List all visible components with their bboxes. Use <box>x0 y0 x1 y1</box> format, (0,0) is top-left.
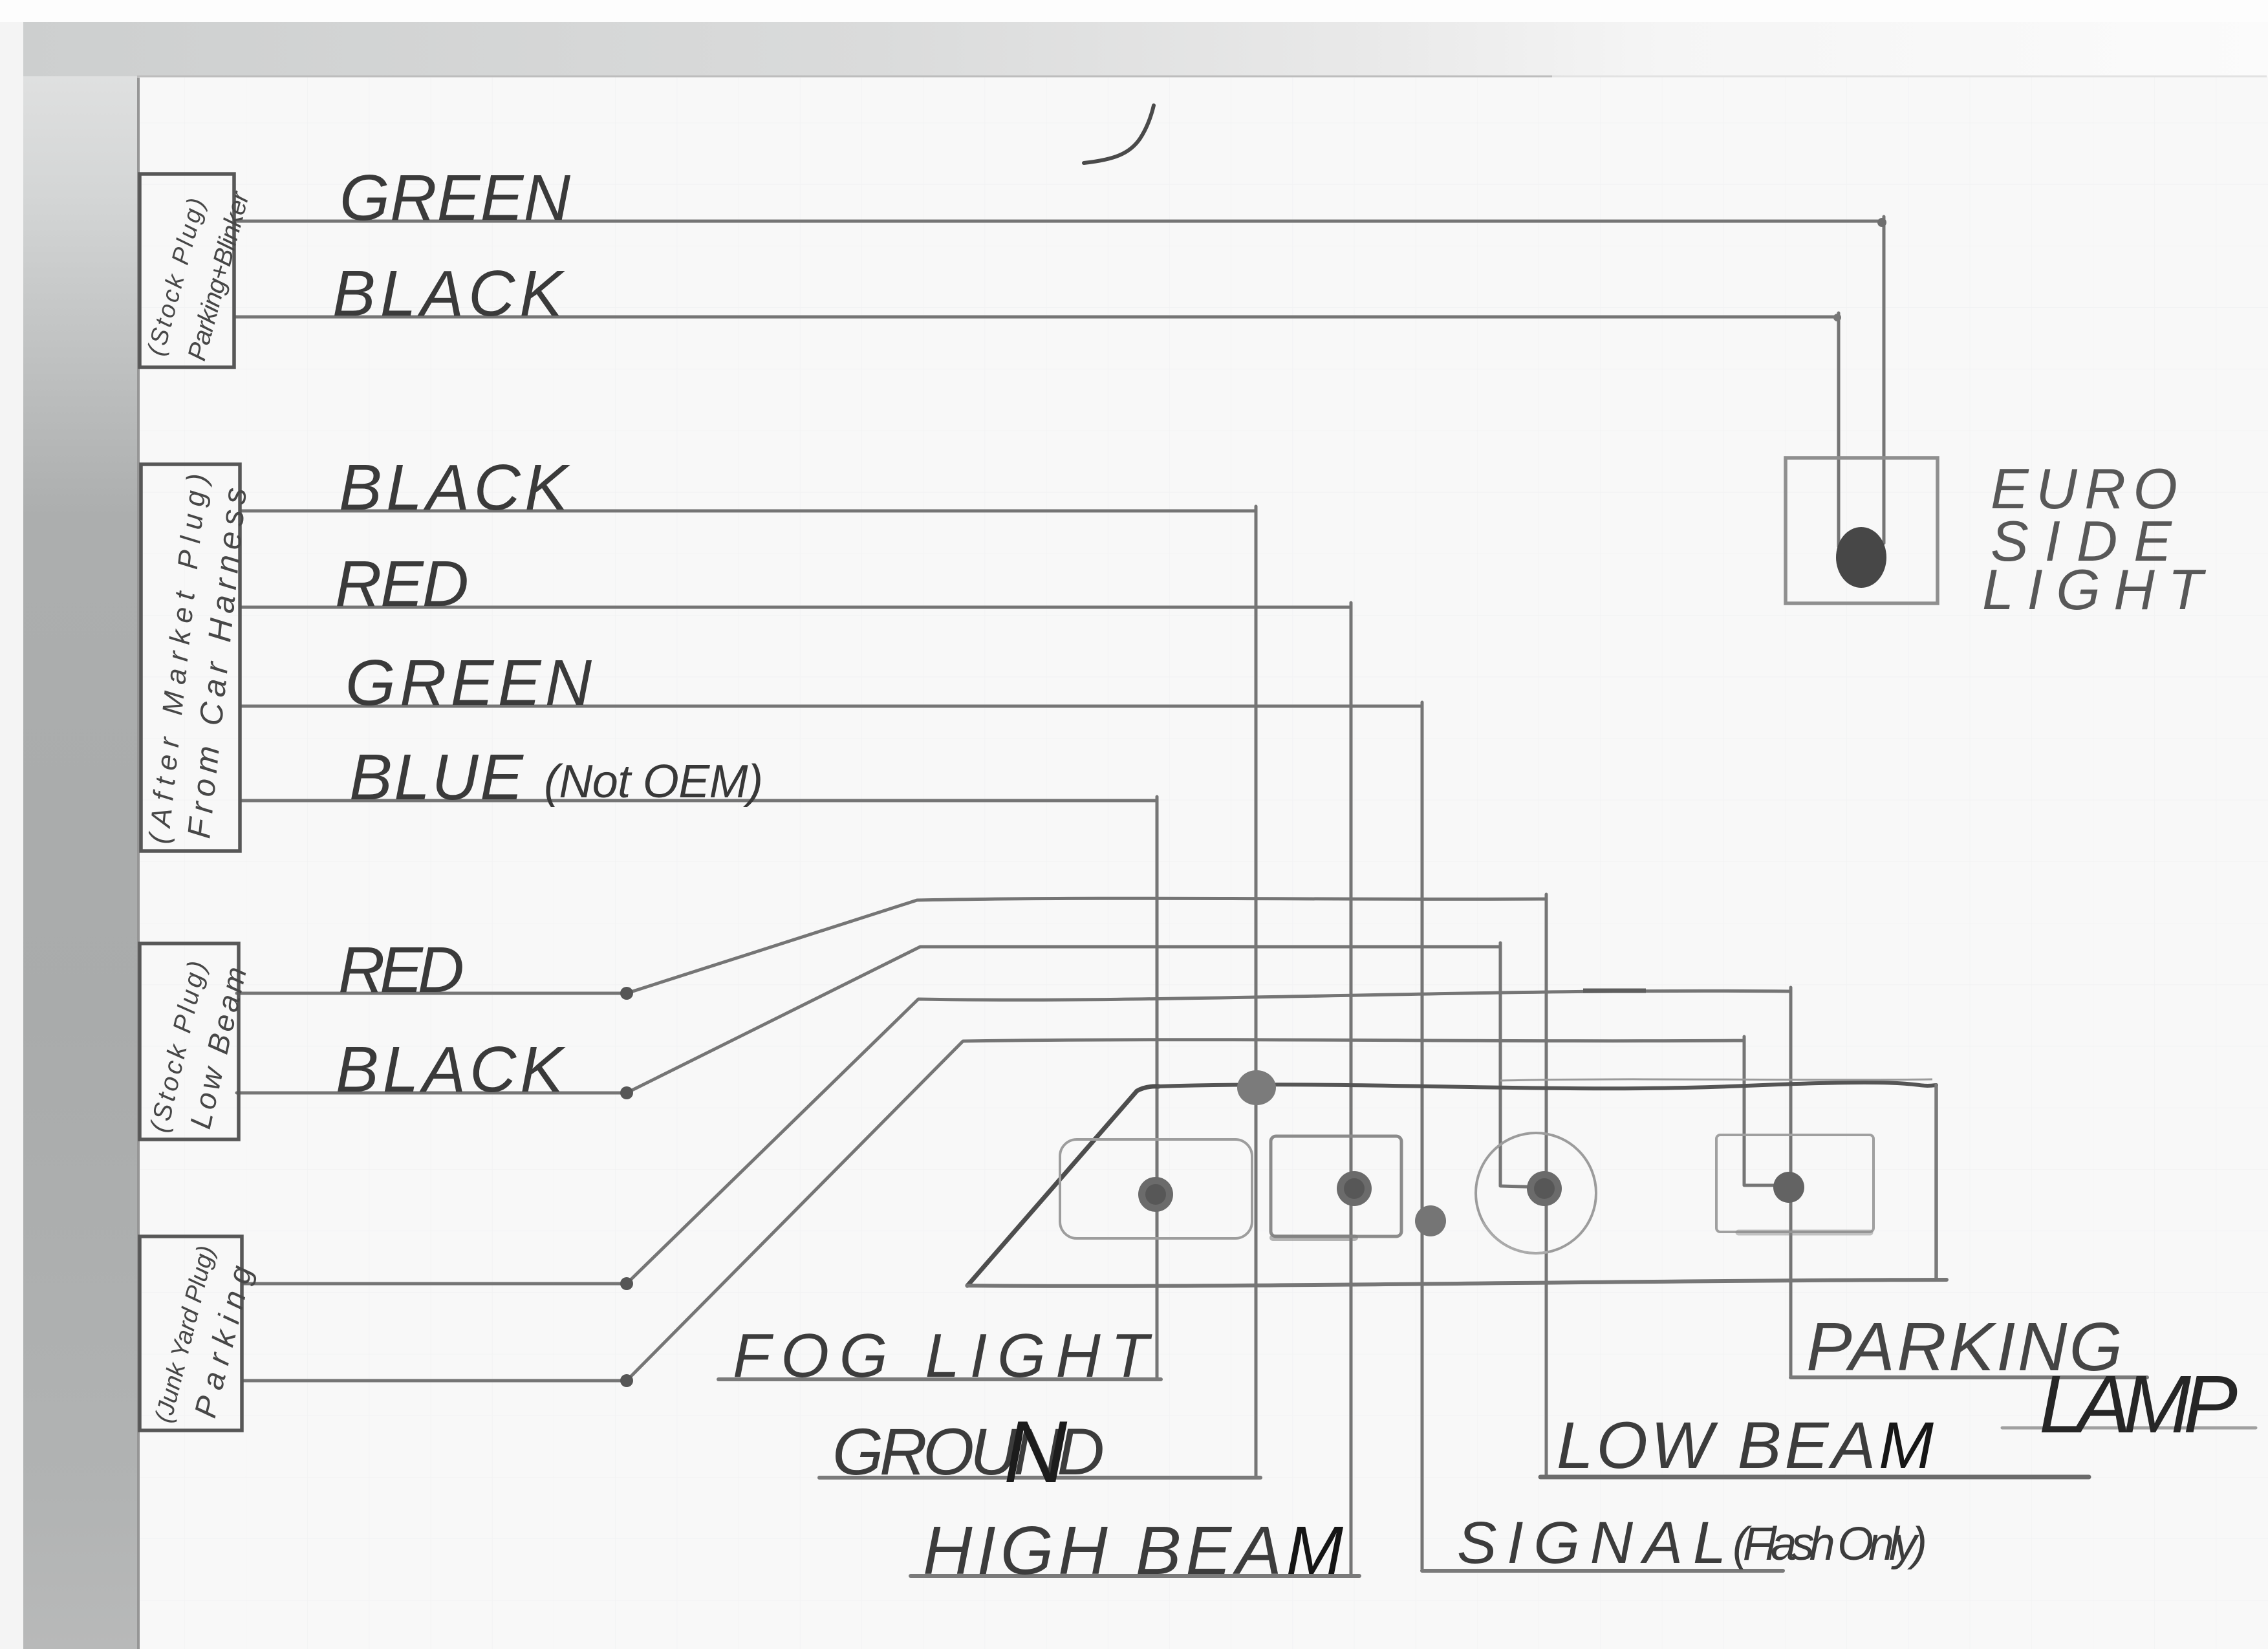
svg-text:GREEN: GREEN <box>345 647 592 719</box>
svg-text:LAMP: LAMP <box>2039 1359 2238 1450</box>
svg-text:(Not OEM): (Not OEM) <box>544 756 763 808</box>
svg-text:(Flash Only): (Flash Only) <box>1733 1518 1927 1570</box>
svg-text:N: N <box>1004 1403 1068 1501</box>
svg-text:RED: RED <box>335 548 469 620</box>
svg-text:RED: RED <box>338 934 464 1006</box>
svg-text:BLACK: BLACK <box>332 257 565 330</box>
svg-text:BLACK: BLACK <box>336 1033 566 1106</box>
svg-text:GREEN: GREEN <box>340 162 571 234</box>
svg-text:BLUE: BLUE <box>349 741 524 814</box>
svg-text:FOG LIGHT: FOG LIGHT <box>733 1321 1152 1390</box>
svg-text:BLACK: BLACK <box>339 451 570 524</box>
